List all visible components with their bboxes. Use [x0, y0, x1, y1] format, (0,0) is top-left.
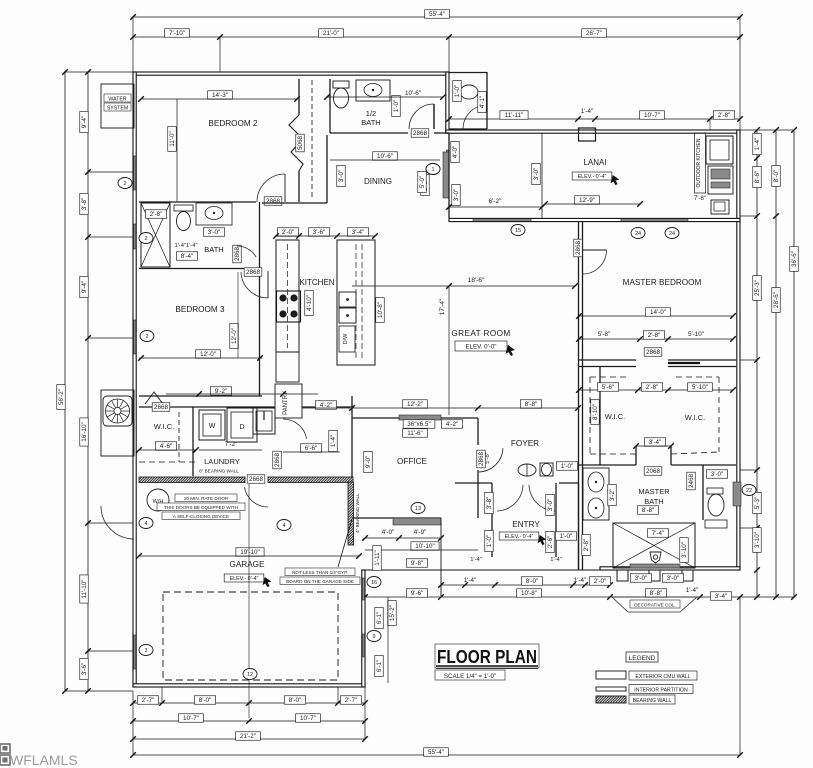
office dims top	[403, 400, 428, 409]
toilet room - master bath	[702, 465, 704, 520]
svg-text:5'-10": 5'-10"	[692, 384, 708, 391]
window - left wall bedroom 3	[134, 320, 136, 354]
svg-text:11'-11": 11'-11"	[505, 112, 524, 119]
svg-text:5068: 5068	[297, 136, 304, 151]
svg-text:9'-0": 9'-0"	[365, 456, 372, 469]
washer dryer - laundry	[199, 410, 225, 440]
svg-text:MASTER: MASTER	[638, 487, 670, 496]
svg-text:ELEV.- 0'-4": ELEV.- 0'-4"	[578, 174, 607, 180]
svg-text:16: 16	[371, 580, 377, 586]
bedroom 2 dim 14'-3	[208, 91, 233, 100]
title - FLOOR PLAN	[435, 644, 539, 668]
svg-text:LAUNDRY: LAUNDRY	[204, 457, 240, 466]
window - office north	[399, 415, 441, 420]
svg-text:D: D	[239, 424, 244, 431]
wall - entry west	[491, 483, 493, 557]
svg-text:2'-8": 2'-8"	[583, 539, 590, 552]
svg-text:BOARD ON THE GARAGE SIDE: BOARD ON THE GARAGE SIDE	[286, 579, 354, 584]
svg-text:2'-0": 2'-0"	[282, 229, 295, 236]
svg-text:9'-4": 9'-4"	[81, 281, 88, 294]
svg-text:13: 13	[415, 506, 421, 512]
svg-text:FOYER: FOYER	[511, 439, 539, 448]
svg-text:21'-2": 21'-2"	[240, 733, 256, 740]
porch columns	[617, 570, 628, 581]
svg-text:1'-0": 1'-0"	[486, 535, 493, 548]
door arc - hall to dining	[409, 104, 434, 129]
kitchen lower cabinet	[276, 352, 299, 382]
svg-text:3: 3	[144, 648, 147, 654]
wic closet dashed	[178, 412, 180, 462]
window tag circles	[118, 178, 132, 189]
bottom dimension line 2'-7 / 8'-0 / 8'-0 / 2'-7	[133, 702, 365, 704]
svg-text:PANTRY: PANTRY	[283, 391, 289, 415]
exterior wall - top of front wing	[133, 72, 449, 75]
svg-text:A SELF-CLOSING DEVICE: A SELF-CLOSING DEVICE	[173, 514, 229, 519]
svg-text:2068: 2068	[646, 468, 661, 475]
entry porch dimension line 1'-4 / 8'-0	[441, 584, 610, 586]
svg-text:2468: 2468	[688, 474, 695, 489]
svg-text:20 MIN. RATE DOOR: 20 MIN. RATE DOOR	[184, 496, 229, 501]
window - left wall bedroom 2	[134, 156, 136, 190]
gyp board note	[285, 568, 355, 576]
svg-text:3'-0": 3'-0"	[208, 229, 221, 236]
svg-text:1: 1	[431, 167, 434, 173]
svg-text:10'-7": 10'-7"	[300, 715, 316, 722]
laundry door dims	[300, 444, 321, 453]
wall - wic partition	[599, 367, 601, 465]
svg-text:2868: 2868	[646, 349, 661, 356]
svg-text:7'-10": 7'-10"	[169, 30, 185, 37]
svg-text:4'-2": 4'-2"	[446, 421, 459, 428]
wall - office east / foyer west	[477, 418, 479, 445]
gyp note leader	[338, 519, 352, 567]
wall - office north	[352, 417, 478, 419]
svg-text:10'-8": 10'-8"	[521, 590, 537, 597]
svg-text:4'-6": 4'-6"	[160, 443, 173, 450]
door arc - pool bath	[463, 106, 481, 129]
garage door notes	[175, 494, 237, 502]
svg-text:NOT LESS THAN 1/2"GYP.: NOT LESS THAN 1/2"GYP.	[292, 570, 348, 575]
door arc - bedroom 2	[257, 174, 285, 202]
svg-text:LANAI: LANAI	[583, 158, 606, 167]
svg-text:3'-6": 3'-6"	[313, 229, 326, 236]
outdoor kitchen sink	[711, 200, 729, 214]
svg-text:W.I.C.: W.I.C.	[605, 412, 625, 421]
svg-text:11'-10": 11'-10"	[81, 579, 88, 598]
svg-text:15'-2": 15'-2"	[389, 605, 396, 621]
svg-text:11'-6": 11'-6"	[407, 430, 423, 437]
right dimension line segments	[756, 130, 758, 597]
svg-text:4: 4	[144, 521, 147, 527]
svg-text:8'-4": 8'-4"	[181, 253, 194, 260]
exterior wall - right side	[737, 130, 740, 570]
garage side door arc	[101, 506, 134, 539]
svg-text:3'-0": 3'-0"	[711, 471, 724, 478]
svg-text:1'-4": 1'-4"	[550, 557, 562, 563]
svg-text:5'-0": 5'-0"	[419, 176, 426, 189]
svg-text:55'-4": 55'-4"	[428, 749, 444, 756]
svg-text:ELEV.- 0'-4": ELEV.- 0'-4"	[230, 576, 259, 582]
left dimension line segments	[87, 72, 89, 691]
window - step wall near dining	[446, 150, 448, 197]
svg-text:2868: 2868	[274, 453, 281, 468]
wic hall dim 3'-4	[644, 438, 665, 447]
svg-text:1'-4": 1'-4"	[581, 108, 594, 115]
laundry sink	[253, 408, 275, 434]
svg-text:26'-7": 26'-7"	[586, 30, 602, 37]
window - left wall bath	[134, 224, 136, 249]
legend title	[626, 652, 658, 662]
window - master bedroom north	[621, 219, 688, 221]
svg-text:7'-2": 7'-2"	[225, 441, 238, 448]
svg-text:2'-8": 2'-8"	[646, 384, 659, 391]
svg-text:3'-0": 3'-0"	[533, 168, 540, 181]
lanai interior line	[541, 133, 543, 218]
bottom overall dimension line 55'-4	[133, 754, 740, 756]
wall - bedroom 2 / bath south	[139, 201, 256, 203]
shower curb	[630, 564, 680, 568]
svg-text:14'-3": 14'-3"	[212, 92, 228, 99]
wall - half bath west	[329, 79, 331, 133]
wall - dining west	[326, 135, 328, 203]
svg-text:3'-2": 3'-2"	[609, 489, 616, 502]
svg-text:12: 12	[247, 672, 253, 678]
svg-text:36'-6": 36'-6"	[791, 251, 798, 267]
svg-text:6'-1": 6'-1"	[376, 612, 383, 625]
svg-text:4'-0": 4'-0"	[382, 529, 395, 536]
svg-text:1'-4": 1'-4"	[330, 435, 337, 448]
svg-text:10'-7": 10'-7"	[644, 112, 660, 119]
sill - office south	[393, 518, 441, 525]
pool equipment fan	[101, 390, 134, 456]
master bedroom fans	[631, 228, 645, 239]
svg-text:3'-6": 3'-6"	[81, 663, 88, 676]
lanai dim line 11'-11 / 1'-4 / 10'-7 / 2'-8	[449, 118, 740, 120]
bottom garage dimension line 21'-2	[133, 738, 365, 740]
svg-text:21'-0": 21'-0"	[323, 30, 339, 37]
svg-text:KITCHEN: KITCHEN	[299, 278, 334, 287]
svg-text:1'-4": 1'-4"	[686, 587, 699, 594]
toilet - half bath	[333, 81, 349, 88]
svg-text:1'-4": 1'-4"	[574, 577, 587, 584]
svg-text:3'-8": 3'-8"	[486, 497, 493, 510]
svg-text:3'-0": 3'-0"	[338, 170, 345, 183]
sink counter - master bath	[583, 468, 609, 520]
exterior wall - master bath south / porch	[600, 567, 740, 570]
door arc - bath 2	[237, 246, 256, 257]
water system box	[101, 84, 134, 128]
svg-text:LEGEND: LEGEND	[629, 655, 656, 662]
svg-text:8'-8": 8'-8"	[650, 590, 663, 597]
svg-text:9: 9	[372, 634, 375, 640]
svg-text:10'-6": 10'-6"	[377, 153, 393, 160]
svg-text:2868: 2868	[413, 130, 428, 137]
svg-text:2'-0": 2'-0"	[594, 578, 607, 585]
left outer dimension line 56'-2	[64, 72, 66, 691]
toilet - bath 2	[174, 205, 193, 211]
svg-text:5'-6": 5'-6"	[602, 384, 615, 391]
foyer light fixtures	[518, 464, 536, 476]
svg-text:3'-0": 3'-0"	[635, 575, 648, 582]
water heater	[147, 489, 169, 511]
svg-text:24: 24	[669, 231, 675, 237]
svg-text:BEARING WALL: BEARING WALL	[633, 698, 672, 704]
svg-text:ENTRY: ENTRY	[512, 520, 540, 529]
column dim ticks	[709, 119, 711, 130]
svg-text:1'-0": 1'-0"	[454, 85, 461, 98]
wall - master bath north	[579, 464, 636, 466]
svg-text:BATH: BATH	[644, 497, 663, 506]
svg-text:4'-10": 4'-10"	[306, 295, 313, 311]
outdoor kitchen label	[695, 133, 706, 193]
bearing wall - office west (hatched)	[348, 482, 354, 545]
svg-text:9'-4": 9'-4"	[81, 116, 88, 129]
wall - master bedroom south	[579, 359, 636, 361]
svg-text:3'-0": 3'-0"	[667, 575, 680, 582]
svg-text:WFLAMLS: WFLAMLS	[10, 752, 78, 768]
top overall dimension line 55'-4	[133, 16, 740, 18]
half wall - kitchen west	[262, 202, 327, 204]
svg-text:4" BEARING WALL: 4" BEARING WALL	[355, 493, 360, 533]
slider door - great room to lanai	[473, 219, 531, 221]
watermark logo	[0, 744, 10, 765]
bearing wall - garage north (hatched)	[139, 477, 245, 483]
svg-text:W: W	[209, 423, 216, 430]
svg-text:BEDROOM 2: BEDROOM 2	[208, 119, 258, 128]
wall - entry south porch edge	[365, 569, 610, 571]
exterior wall - left side	[133, 72, 136, 687]
svg-text:INTERIOR PARTITION: INTERIOR PARTITION	[634, 688, 688, 694]
svg-text:2'-8": 2'-8"	[718, 112, 731, 119]
kitchen dims	[277, 228, 298, 237]
svg-text:1'-4": 1'-4"	[754, 138, 761, 151]
right dimension line 28'-6 / 8'-0	[775, 130, 777, 597]
wall - half bath / dining south	[330, 132, 408, 134]
svg-text:2'-8": 2'-8"	[150, 211, 163, 218]
door leaf - master closet hall	[668, 362, 700, 364]
wall - hall east / office west	[351, 396, 353, 477]
svg-text:BEDROOM 3: BEDROOM 3	[175, 305, 225, 314]
svg-text:D/W: D/W	[343, 333, 349, 345]
svg-text:SCALE 1/4" = 1'-0": SCALE 1/4" = 1'-0"	[444, 673, 496, 680]
svg-text:ELEV.- 0'-4": ELEV.- 0'-4"	[505, 534, 534, 540]
door arc - master bedroom entry	[583, 250, 607, 274]
wic dim row	[579, 389, 733, 391]
svg-text:19'-10": 19'-10"	[240, 549, 260, 556]
svg-text:1'-0": 1'-0"	[393, 100, 400, 113]
svg-text:12'-2": 12'-2"	[407, 401, 423, 408]
svg-text:7'-4": 7'-4"	[652, 530, 665, 537]
svg-text:12'-9": 12'-9"	[579, 197, 595, 204]
bedroom 3 dims	[196, 350, 221, 359]
wall - lanai south / great room north	[449, 218, 740, 221]
svg-text:OUTDOOR KITCHEN: OUTDOOR KITCHEN	[696, 138, 702, 187]
kitchen island 2 with sink and dishwasher	[337, 240, 375, 365]
svg-text:16'-10": 16'-10"	[81, 422, 88, 442]
foyer dim 8'-8	[520, 400, 541, 409]
wall - bath east	[259, 202, 261, 269]
lanai column	[579, 128, 596, 141]
decorative column note	[630, 574, 651, 583]
svg-text:1'-4": 1'-4"	[464, 577, 477, 584]
svg-text:5'-10": 5'-10"	[688, 331, 704, 338]
svg-text:10'-8": 10'-8"	[377, 302, 384, 318]
svg-text:6'-6": 6'-6"	[305, 445, 318, 452]
svg-text:5'-3": 5'-3"	[754, 497, 761, 510]
sink counter - bath 2	[196, 203, 232, 225]
exterior wall - garage right	[362, 570, 365, 687]
wall - master suite west	[578, 222, 580, 570]
svg-text:GARAGE: GARAGE	[229, 560, 265, 569]
svg-text:28'-6": 28'-6"	[773, 292, 780, 308]
svg-text:8'-0": 8'-0"	[526, 578, 539, 585]
wic door peak symbol	[145, 392, 163, 404]
svg-text:ELEV. 0'-0": ELEV. 0'-0"	[465, 344, 496, 351]
exterior wall - top of rear wing (lanai)	[446, 130, 740, 133]
svg-text:2868: 2868	[246, 269, 261, 276]
svg-text:8'-8": 8'-8"	[642, 507, 655, 514]
dim - bath 2	[145, 210, 166, 219]
svg-text:FLOOR PLAN: FLOOR PLAN	[437, 646, 537, 667]
door arc - office	[479, 448, 503, 472]
window - garage right wall lower	[362, 634, 364, 657]
svg-text:6" BEARING WALL: 6" BEARING WALL	[199, 469, 239, 474]
svg-text:2: 2	[123, 181, 126, 187]
legend interior partition	[596, 687, 626, 691]
svg-text:1'-0": 1'-0"	[561, 463, 574, 470]
svg-text:3'-10": 3'-10"	[681, 542, 688, 558]
svg-text:2668: 2668	[249, 476, 264, 483]
wall - bedroom 3 east	[259, 268, 261, 396]
svg-text:1/2: 1/2	[366, 109, 376, 118]
svg-text:8'-10": 8'-10"	[592, 404, 599, 420]
svg-text:17'-4": 17'-4"	[439, 298, 446, 315]
attic access dashed line - hall	[311, 80, 313, 200]
wic2 dashed	[139, 461, 196, 463]
svg-text:8'-6": 8'-6"	[754, 171, 761, 184]
wall - office south	[352, 517, 441, 519]
svg-text:2: 2	[145, 334, 148, 340]
window - left wall garage	[134, 635, 136, 669]
svg-text:2868: 2868	[266, 198, 281, 205]
svg-text:56'-2": 56'-2"	[58, 389, 65, 405]
toilet - pool bath	[455, 84, 461, 100]
svg-text:9'-8": 9'-8"	[411, 560, 424, 567]
svg-text:4'-1": 4'-1"	[479, 96, 486, 109]
svg-text:W.I.C.: W.I.C.	[685, 413, 705, 422]
svg-text:2868: 2868	[234, 247, 241, 262]
svg-text:12'-0": 12'-0"	[231, 328, 238, 344]
wic dashed closets	[590, 376, 627, 378]
svg-text:3'-8": 3'-8"	[81, 198, 88, 211]
door arc - bedroom 3	[241, 272, 268, 298]
svg-text:WATER: WATER	[108, 97, 126, 103]
legend bearing wall	[596, 696, 626, 703]
svg-text:4'-9": 4'-9"	[414, 529, 427, 536]
garage dim 19'-10	[236, 548, 264, 557]
top dimension line 7'-10 / 21'-0 / 26'-7	[133, 36, 740, 38]
svg-text:2'-7": 2'-7"	[142, 697, 155, 704]
master bedroom dim 14'-0	[579, 315, 733, 317]
svg-text:MASTER BEDROOM: MASTER BEDROOM	[623, 278, 702, 287]
svg-text:6'-1": 6'-1"	[376, 660, 383, 673]
svg-text:10'-10": 10'-10"	[415, 543, 435, 550]
svg-text:2'-6": 2'-6"	[547, 536, 554, 549]
pool bath walls	[449, 72, 487, 74]
exterior wall - step between wings	[446, 72, 449, 133]
svg-text:3'-0": 3'-0"	[547, 499, 554, 512]
svg-text:22: 22	[746, 488, 752, 494]
svg-text:3'-4": 3'-4"	[352, 229, 365, 236]
sink - half bath	[356, 80, 390, 101]
garage right dims	[367, 577, 381, 588]
svg-text:4: 4	[282, 523, 285, 529]
svg-text:8'-0": 8'-0"	[289, 697, 302, 704]
svg-text:11'-0": 11'-0"	[169, 131, 176, 147]
wall - entry east	[555, 483, 557, 557]
svg-text:SYSTEM: SYSTEM	[107, 106, 128, 112]
svg-text:3'-4": 3'-4"	[715, 593, 728, 600]
master bedroom dim row 2	[579, 338, 733, 340]
svg-text:DECORATIVE COL.: DECORATIVE COL.	[634, 603, 676, 608]
svg-text:5'-8": 5'-8"	[598, 331, 611, 338]
svg-text:1'-11": 1'-11"	[374, 550, 381, 566]
pantry closet	[275, 384, 302, 418]
svg-text:14'-0": 14'-0"	[650, 309, 666, 316]
svg-text:10'-7": 10'-7"	[183, 715, 199, 722]
svg-text:36"x6.5": 36"x6.5"	[407, 421, 430, 428]
door arc - pantry hall	[283, 419, 307, 439]
svg-text:25'-3": 25'-3"	[754, 280, 761, 296]
svg-text:8'-0": 8'-0"	[199, 697, 212, 704]
bottom porch dimension line 9'-6 / 10'-8 / 8'-8 / 3'-4	[365, 596, 740, 598]
svg-text:24: 24	[635, 231, 641, 237]
svg-text:10'-6": 10'-6"	[405, 90, 421, 97]
svg-text:5'-8": 5'-8"	[485, 452, 491, 464]
shower - bath 2 (X pattern)	[141, 203, 170, 267]
svg-text:BATH: BATH	[204, 245, 223, 254]
svg-text:2868: 2868	[575, 241, 582, 256]
svg-text:1'-4"1'-4": 1'-4"1'-4"	[174, 243, 197, 249]
svg-text:4'-0": 4'-0"	[452, 146, 459, 159]
svg-text:8'-8": 8'-8"	[525, 401, 538, 408]
outdoor kitchen grill	[708, 166, 733, 194]
svg-text:DINING: DINING	[364, 177, 392, 186]
entry double doors	[455, 482, 492, 484]
svg-text:2: 2	[144, 236, 147, 242]
right dimension line 36'-6	[793, 130, 795, 597]
window - garage right wall upper	[362, 578, 364, 600]
outdoor kitchen counter	[706, 136, 733, 164]
refrigerator - kitchen east wall	[443, 152, 449, 198]
svg-text:THIS DOORS BE EQUIPPED WITH: THIS DOORS BE EQUIPPED WITH	[164, 505, 238, 510]
kitchen island 1 with range	[276, 240, 299, 352]
svg-text:18'-6": 18'-6"	[468, 277, 485, 284]
svg-text:15: 15	[515, 228, 521, 234]
garage door dashed opening	[163, 592, 338, 680]
exterior wall - garage bottom	[133, 684, 365, 687]
legend exterior cmu wall	[596, 671, 626, 679]
wall - bedroom 2 east + closet zigzag	[298, 79, 300, 115]
svg-text:BATH: BATH	[361, 118, 380, 127]
wall - dining east (lanai west)	[448, 133, 450, 218]
svg-text:2'-7": 2'-7"	[345, 697, 358, 704]
svg-text:55'-4": 55'-4"	[429, 11, 445, 18]
svg-text:2668: 2668	[154, 404, 169, 411]
svg-text:EXTERIOR CMU WALL: EXTERIOR CMU WALL	[635, 674, 690, 680]
svg-text:OFFICE: OFFICE	[397, 457, 428, 466]
bottom dimension line 10'-7 / 10'-7	[133, 720, 365, 722]
